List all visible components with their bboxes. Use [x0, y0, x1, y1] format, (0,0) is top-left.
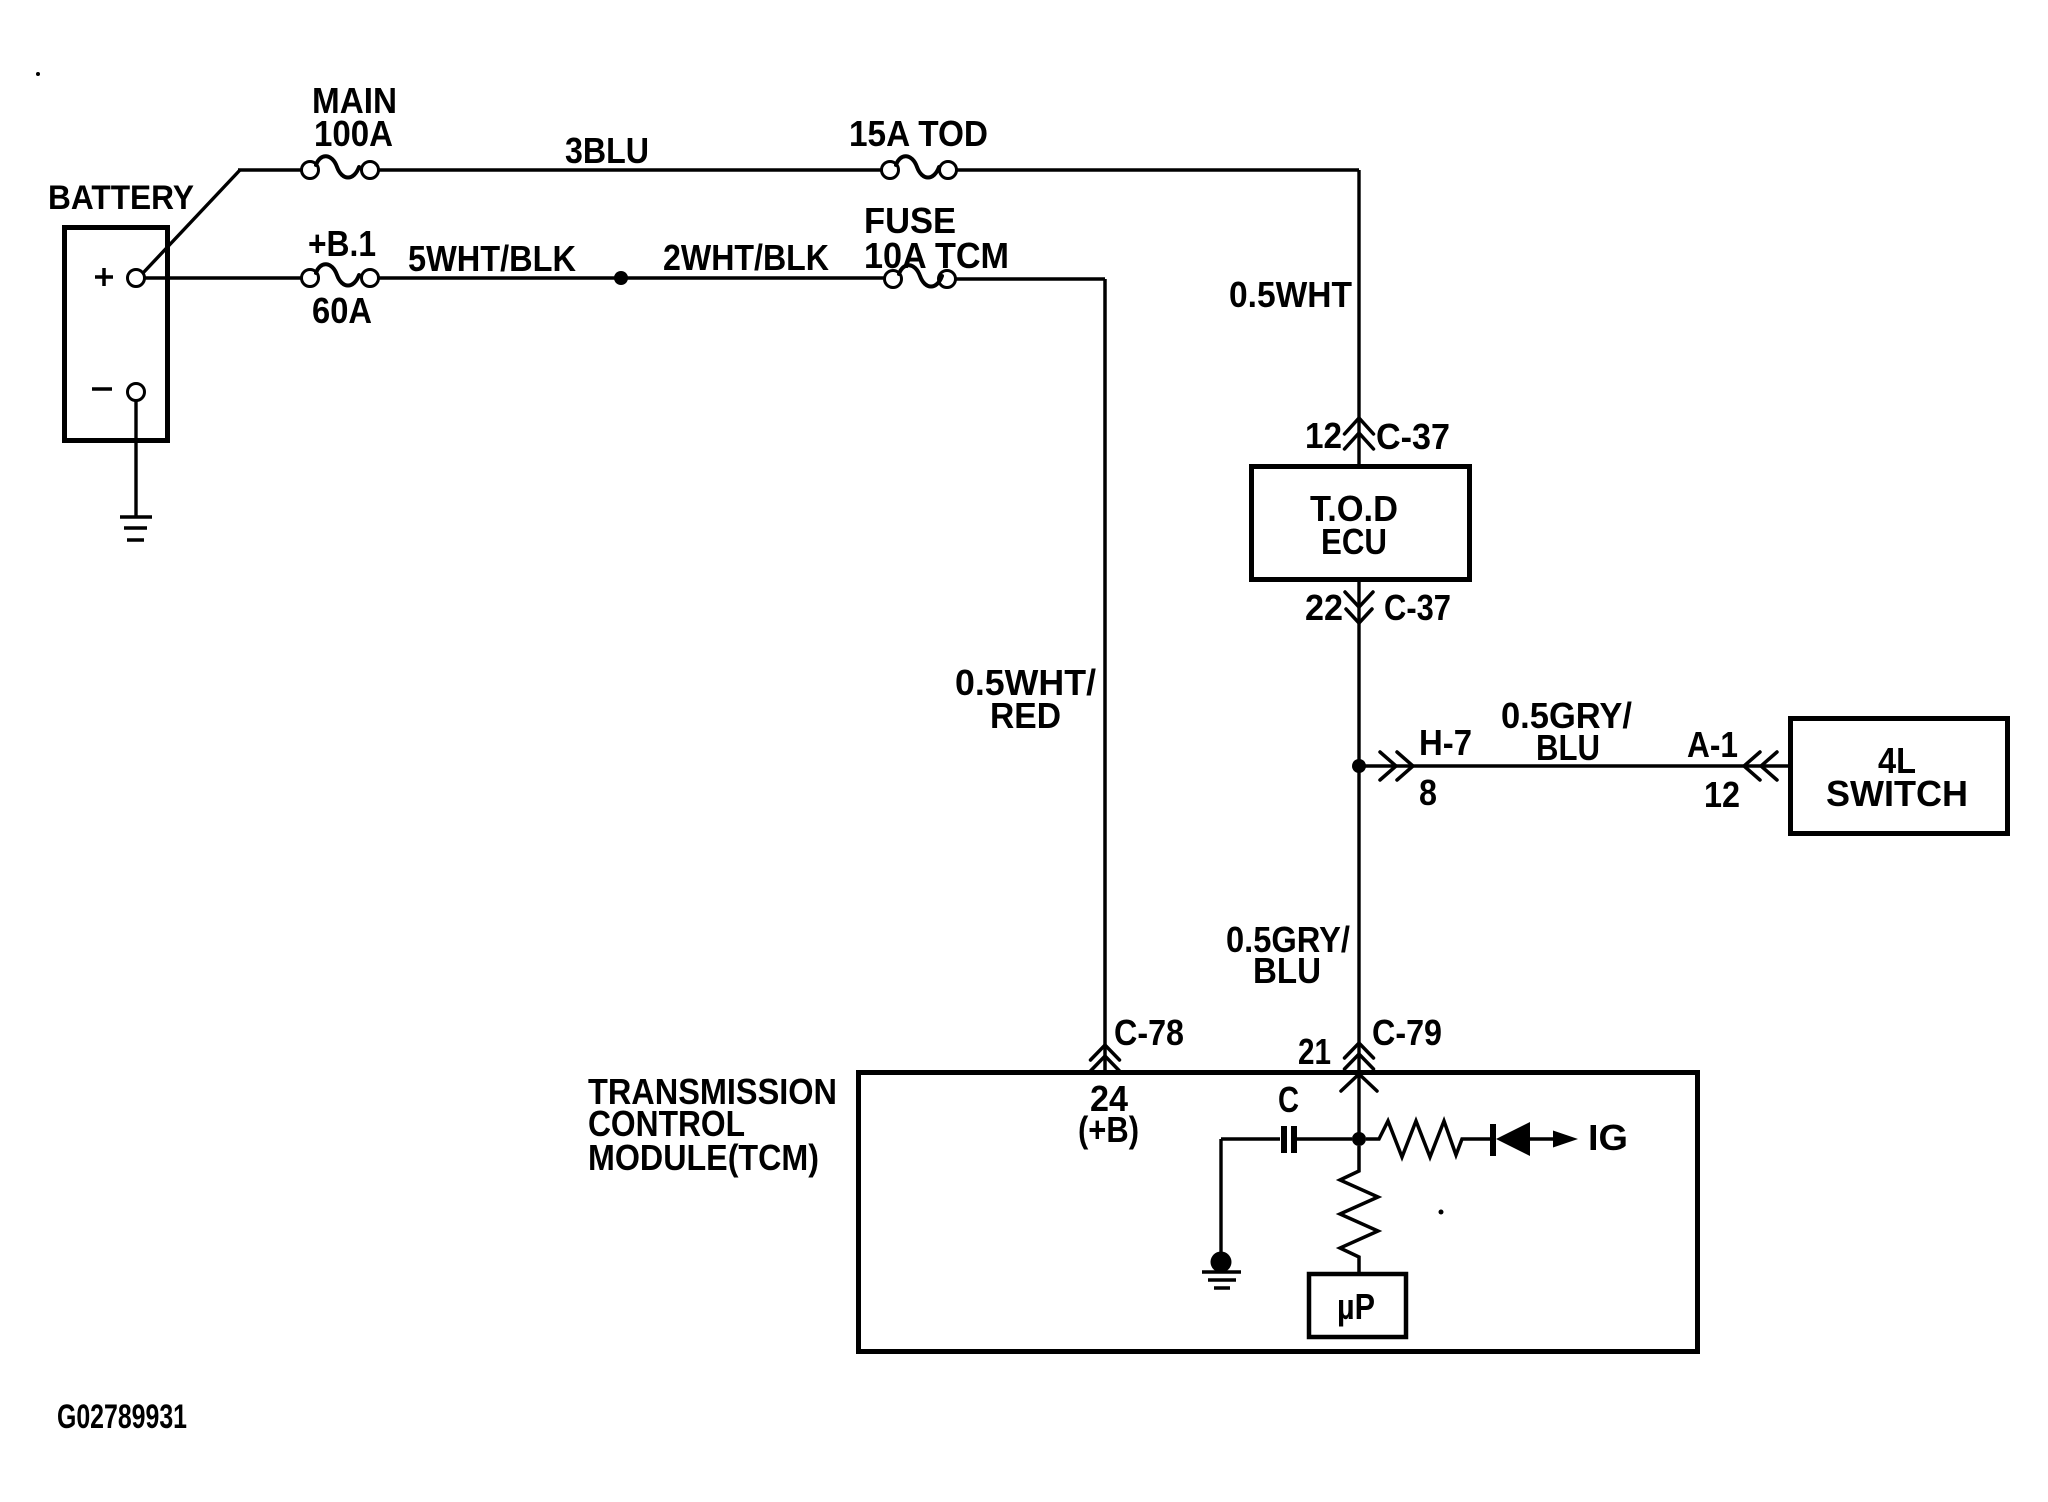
fuse 15A TOD [882, 156, 957, 178]
wire vertical 0.5WHT/RED [1103, 279, 1107, 1070]
svg-text:12: 12 [1704, 774, 1740, 815]
fuse 10A TCM [885, 265, 956, 287]
connector C-37 pin 22 chevrons [1345, 592, 1373, 623]
fuse MAIN 100A [302, 156, 379, 178]
wire battery plus diagonal to main fuse feed [143, 170, 240, 273]
resistor R2 vertical [1340, 1146, 1378, 1272]
battery minus sign [92, 387, 112, 391]
svg-text:(+B): (+B) [1078, 1109, 1139, 1150]
battery B1 box [65, 228, 168, 441]
battery plus terminal [128, 270, 145, 287]
svg-text:H-7: H-7 [1419, 722, 1472, 763]
svg-text:12: 12 [1305, 415, 1342, 456]
T.O.D ECU box U1 [1252, 467, 1470, 580]
svg-text:0.5WHT: 0.5WHT [1229, 274, 1352, 315]
svg-text:C-78: C-78 [1114, 1012, 1184, 1053]
ground TCM internal [1202, 1252, 1241, 1289]
battery minus terminal [128, 384, 145, 401]
node junction H-7 [1352, 759, 1366, 773]
scan speck TCM [1439, 1210, 1444, 1215]
connector C-78 pin 24 chevrons [1091, 1045, 1120, 1071]
svg-text:5WHT/BLK: 5WHT/BLK [408, 238, 576, 279]
svg-text:IG: IG [1588, 1117, 1628, 1158]
wire 3BLU [378, 168, 882, 171]
diode D1 [1490, 1122, 1553, 1156]
node junction 2WHT/BLK [614, 271, 628, 285]
connector A-1 pin 12 chevrons [1744, 752, 1777, 780]
microprocessor uP box [1309, 1274, 1406, 1337]
svg-text:22: 22 [1305, 587, 1343, 628]
wire battery minus to ground [134, 400, 137, 516]
svg-text:µP: µP [1337, 1286, 1375, 1327]
svg-text:15A TOD: 15A TOD [849, 113, 988, 154]
wire capacitor to ground [1219, 1139, 1222, 1253]
svg-text:C-37: C-37 [1376, 416, 1450, 457]
wire fuse TOD to corner [956, 168, 1359, 171]
svg-text:C-37: C-37 [1384, 587, 1451, 628]
connector C-79 pin 21 chevrons [1341, 1043, 1377, 1091]
svg-text:3BLU: 3BLU [565, 130, 649, 171]
4L SWITCH box S1 [1791, 719, 2008, 834]
svg-text:ECU: ECU [1321, 521, 1387, 562]
svg-text:10A TCM: 10A TCM [864, 235, 1009, 276]
connector C-37 pin 12 chevrons [1345, 418, 1374, 449]
battery plus sign [95, 268, 113, 286]
wire ECU to junction [1357, 582, 1360, 766]
svg-text:BLU: BLU [1253, 950, 1321, 991]
svg-text:C-79: C-79 [1372, 1012, 1442, 1053]
node junction capacitor resistor [1352, 1132, 1366, 1146]
svg-text:BLU: BLU [1536, 727, 1600, 768]
svg-text:21: 21 [1298, 1031, 1331, 1072]
wire junction to 4L switch [1359, 764, 1789, 767]
svg-text:2WHT/BLK: 2WHT/BLK [663, 237, 829, 278]
svg-text:100A: 100A [314, 113, 393, 154]
scan speck top-left [36, 72, 40, 76]
resistor R1 horizontal [1366, 1121, 1490, 1157]
svg-text:60A: 60A [312, 290, 372, 331]
svg-text:RED: RED [990, 695, 1061, 736]
connector H-7 pin 8 chevrons [1380, 752, 1413, 780]
svg-text:C: C [1278, 1079, 1299, 1120]
svg-text:+B.1: +B.1 [308, 223, 376, 264]
wire to fuse MAIN [238, 168, 302, 171]
ground battery [120, 517, 152, 540]
svg-text:SWITCH: SWITCH [1826, 773, 1968, 814]
svg-text:MODULE(TCM): MODULE(TCM) [588, 1137, 819, 1178]
arrow to IG [1553, 1131, 1578, 1148]
wire junction down 0.5GRY/BLU [1357, 766, 1360, 1143]
TCM box U2 [859, 1073, 1698, 1352]
wire 5WHT/BLK [378, 276, 884, 279]
wire fuse TCM to corner [955, 277, 1105, 280]
fuse +B.1 60A [302, 264, 379, 286]
capacitor C [1221, 1126, 1352, 1153]
svg-text:BATTERY: BATTERY [48, 179, 194, 217]
svg-text:A-1: A-1 [1687, 724, 1738, 765]
wire battery plus to fuse B.1 [144, 276, 302, 279]
svg-text:8: 8 [1419, 772, 1437, 813]
wire vertical 0.5WHT [1357, 170, 1360, 464]
svg-text:G02789931: G02789931 [57, 1398, 187, 1436]
